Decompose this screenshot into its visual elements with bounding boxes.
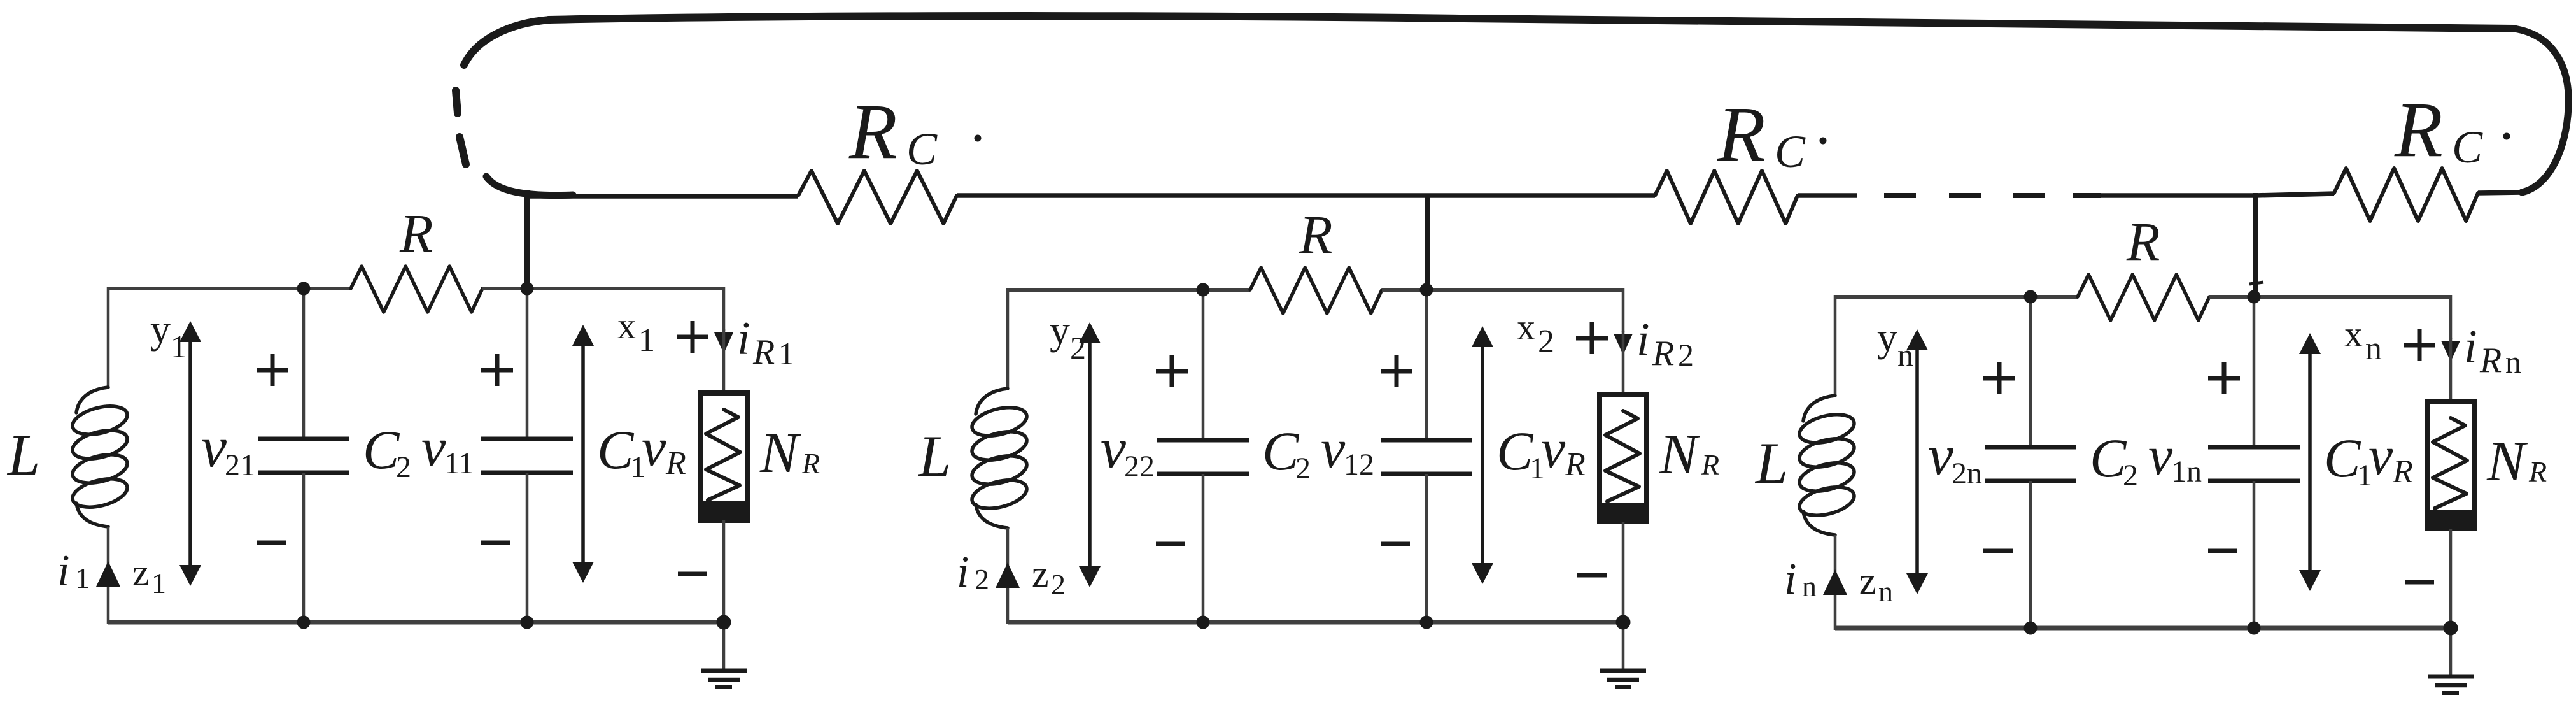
node bottom-C2 (cell 2) xyxy=(1197,616,1210,629)
node bottom-C1 (cell 2) xyxy=(1420,616,1433,629)
svg-text:i: i xyxy=(57,546,69,596)
wire cell3 N_R branch lower xyxy=(2449,529,2453,628)
svg-text:v: v xyxy=(642,417,666,478)
current arrow in (cell 3) xyxy=(1823,569,1847,595)
svg-text:1: 1 xyxy=(778,336,794,371)
loop wire left corner xyxy=(464,20,550,65)
resistor R (cell 1) xyxy=(351,266,482,312)
svg-text:R: R xyxy=(2126,211,2160,272)
label L (cell 1) xyxy=(6,422,40,487)
svg-text:1: 1 xyxy=(151,567,166,599)
capacitor C1 (cell 1) xyxy=(481,439,573,473)
wire cell1 top-left segment xyxy=(108,287,351,290)
wire junction3 to RC3 xyxy=(2256,194,2334,196)
wire cell1 C2 branch upper xyxy=(302,289,306,439)
wire cell2 C2 branch upper xyxy=(1202,290,1205,440)
nonlinear resistor N_R (cell 3) xyxy=(2427,401,2474,529)
label i_Rn xyxy=(2464,321,2521,380)
capacitor C2 (cell 3) xyxy=(1985,447,2076,481)
capacitor C2 (cell 2) xyxy=(1157,440,1249,474)
plus v2 (cell 3) xyxy=(1983,362,2015,394)
junction wire drop to cell3 xyxy=(2249,193,2263,297)
state arrow x2 (cell 2) xyxy=(1472,326,1493,584)
svg-text:i: i xyxy=(737,313,750,365)
plus v2 (cell 1) xyxy=(257,354,288,386)
label i_R1 xyxy=(737,313,794,372)
svg-text:1: 1 xyxy=(638,322,655,359)
wire cell3 left vertical (top) xyxy=(1834,295,1837,396)
wire cell2 left vertical (top) xyxy=(1006,288,1010,389)
ground (cell 1) xyxy=(701,671,747,687)
wire ground stem (cell 3) xyxy=(2449,628,2453,676)
svg-text:x: x xyxy=(1517,306,1535,348)
svg-text:v: v xyxy=(421,417,446,478)
inductor L (cell 1) xyxy=(69,387,130,527)
coupling resistor RC2 xyxy=(1655,171,1798,224)
node top-C1 (cell 2) xyxy=(1420,283,1433,297)
label C2 (cell 2) xyxy=(1262,420,1311,485)
loop wire left lower arc xyxy=(486,176,573,196)
wire cell1 top-right segment xyxy=(527,287,724,331)
node bottom-NR (cell 3) xyxy=(2444,621,2458,636)
junction wire drop to cell2 xyxy=(1425,194,1430,290)
wire ground stem (cell 2) xyxy=(1622,622,1625,671)
svg-text:11: 11 xyxy=(444,446,474,480)
svg-text:2: 2 xyxy=(975,563,989,596)
label xn xyxy=(2344,313,2382,367)
svg-text:1: 1 xyxy=(171,329,187,364)
svg-text:C: C xyxy=(363,419,400,480)
loop wire top horizontal xyxy=(549,16,2514,29)
state arrow y2/z2 (cell 2) xyxy=(1079,322,1101,587)
wire cell3 bottom xyxy=(1835,626,2451,631)
svg-text:n: n xyxy=(2365,331,2382,367)
label R (cell 3) xyxy=(2126,211,2160,272)
svg-text:2: 2 xyxy=(1678,337,1694,373)
svg-text:x: x xyxy=(617,305,636,346)
wire cell3 C2 branch upper xyxy=(2029,297,2032,447)
label v22 xyxy=(1101,417,1155,483)
label RC1 xyxy=(848,88,982,175)
coupling resistor RC1 xyxy=(798,171,957,224)
svg-text:R: R xyxy=(1701,448,1719,481)
node top-C2 (cell 3) xyxy=(2024,290,2038,304)
label L (cell 2) xyxy=(917,424,951,489)
svg-text:L: L xyxy=(6,422,40,487)
svg-text:1n: 1n xyxy=(2171,455,2202,489)
label z1 xyxy=(132,552,166,599)
inductor L (cell 3) xyxy=(1796,396,1857,535)
label RC3 xyxy=(2394,86,2510,173)
node top-C2 (cell 1) xyxy=(297,282,311,296)
wire cell2 top-right segment xyxy=(1426,288,1623,332)
svg-text:22: 22 xyxy=(1124,450,1155,483)
wire cell2 C1 branch upper xyxy=(1425,290,1428,440)
wire ground stem (cell 1) xyxy=(722,622,726,671)
svg-text:2n: 2n xyxy=(1952,457,1982,490)
label i1 xyxy=(57,546,90,596)
wire cell1 C1 branch upper xyxy=(526,289,529,439)
wire cell1 C1 branch lower xyxy=(526,473,529,622)
wire cell2 N_R branch lower xyxy=(1622,522,1625,622)
wire cell2 top-mid segment xyxy=(1382,288,1426,292)
svg-text:n: n xyxy=(1897,337,1913,373)
label i_R2 xyxy=(1636,314,1694,373)
svg-text:R: R xyxy=(1652,334,1674,373)
state arrow xn (cell 3) xyxy=(2299,333,2321,591)
label z2 xyxy=(1032,553,1066,601)
node bottom-NR (cell 2) xyxy=(1616,615,1631,630)
label y2 xyxy=(1050,308,1086,366)
plus vR (cell 3) xyxy=(2404,329,2435,361)
wire cell2 top-left segment xyxy=(1008,288,1250,292)
svg-text:L: L xyxy=(1754,431,1788,496)
wire RC3 to right loop end xyxy=(2478,192,2523,193)
svg-text:N: N xyxy=(759,422,801,485)
svg-text:R: R xyxy=(1565,446,1586,483)
svg-text:R: R xyxy=(801,447,820,480)
label v21 xyxy=(201,416,255,482)
svg-text:C: C xyxy=(2324,427,2361,489)
svg-text:R: R xyxy=(848,88,897,175)
coupling resistor RC3 xyxy=(2334,168,2478,221)
current arrow i_Rn into N_R xyxy=(2441,341,2460,362)
wire RC2 tail xyxy=(1798,193,1857,198)
capacitor C1 (cell 3) xyxy=(2208,447,2300,481)
label vR (cell 1) xyxy=(642,417,686,482)
wire cell3 left vertical (bottom) xyxy=(1834,535,1837,630)
minus v2 (cell 3) xyxy=(1983,549,2013,553)
svg-text:2: 2 xyxy=(396,450,411,484)
wire cell2 N_R branch upper xyxy=(1622,331,1625,396)
svg-text:y: y xyxy=(1050,308,1070,353)
label v12 xyxy=(1321,418,1374,482)
state arrow yn/zn (cell 3) xyxy=(1906,329,1928,594)
svg-text:12: 12 xyxy=(1344,448,1374,482)
svg-text:z: z xyxy=(132,552,150,594)
junction wire drop to cell1 xyxy=(524,190,530,290)
label C2 (cell 3) xyxy=(2090,427,2138,492)
wire cell2 left vertical (bottom) xyxy=(1006,528,1010,624)
svg-text:R: R xyxy=(2394,86,2443,173)
resistor R (cell 3) xyxy=(2078,275,2209,320)
wire cell3 top-mid segment xyxy=(2209,295,2254,299)
minus v1 (cell 3) xyxy=(2208,549,2237,553)
label y1 xyxy=(150,306,187,364)
wire RC1 to junction2 xyxy=(957,193,1428,198)
svg-text:i: i xyxy=(1636,314,1650,366)
ground (cell 3) xyxy=(2428,676,2474,693)
wire cell3 top-left segment xyxy=(1835,295,2078,299)
label v2n xyxy=(1928,424,1982,490)
plus v2 (cell 2) xyxy=(1156,355,1188,387)
svg-text:C: C xyxy=(1262,420,1300,482)
minus v2 (cell 1) xyxy=(257,541,286,545)
minus v1 (cell 2) xyxy=(1381,542,1410,546)
svg-text:R: R xyxy=(2392,453,2413,490)
state arrow y1/z1 (cell 1) xyxy=(179,321,201,586)
plus vR (cell 1) xyxy=(677,321,708,353)
svg-text:21: 21 xyxy=(225,448,255,482)
label v11 xyxy=(421,417,474,480)
wire coupling junction1 to RC1 xyxy=(530,194,798,199)
svg-text:v: v xyxy=(2148,425,2173,486)
svg-text:C: C xyxy=(906,124,938,175)
nonlinear resistor N_R (cell 2) xyxy=(1600,394,1647,522)
label i2 xyxy=(957,548,989,597)
minus vR (cell 2) xyxy=(1577,573,1607,578)
minus v1 (cell 1) xyxy=(481,541,510,545)
svg-text:v: v xyxy=(1928,424,1953,487)
svg-text:x: x xyxy=(2344,313,2363,355)
node top-C1 (cell 3) xyxy=(2248,290,2261,304)
label x2 xyxy=(1517,306,1554,360)
label L (cell 3) xyxy=(1754,431,1788,496)
label v1n xyxy=(2148,425,2202,489)
resistor R (cell 2) xyxy=(1250,268,1382,313)
label vR (cell 3) xyxy=(2368,425,2413,490)
ground (cell 2) xyxy=(1600,671,1646,687)
label C1 (cell 3) xyxy=(2324,427,2372,492)
svg-text:v: v xyxy=(201,416,227,479)
svg-text:R: R xyxy=(2528,455,2547,488)
wire cell1 C2 branch lower xyxy=(302,473,306,622)
wire cell2 C2 branch lower xyxy=(1202,474,1205,622)
wire cell3 C2 branch lower xyxy=(2029,481,2032,628)
svg-text:R: R xyxy=(665,445,686,482)
svg-text:C: C xyxy=(597,419,635,480)
label C1 (cell 2) xyxy=(1496,420,1545,485)
label vR (cell 2) xyxy=(1541,418,1586,483)
svg-text:2: 2 xyxy=(1051,568,1066,601)
current arrow i_R1 into N_R xyxy=(714,332,733,353)
label R (cell 2) xyxy=(1299,204,1333,265)
wire cell1 N_R branch upper xyxy=(722,329,726,394)
loop wire right U-turn xyxy=(2514,29,2568,192)
minus v2 (cell 2) xyxy=(1156,542,1185,546)
svg-text:v: v xyxy=(1321,418,1346,479)
inductor L (cell 2) xyxy=(969,389,1029,528)
svg-text:y: y xyxy=(1877,315,1897,360)
svg-text:i: i xyxy=(2464,321,2477,373)
svg-text:N: N xyxy=(2486,430,2528,493)
svg-text:2: 2 xyxy=(2123,459,2138,492)
svg-text:y: y xyxy=(150,306,171,352)
minus vR (cell 3) xyxy=(2405,580,2434,585)
svg-text:z: z xyxy=(1859,560,1876,602)
label yn xyxy=(1877,315,1913,373)
svg-text:N: N xyxy=(1659,423,1701,486)
label RC2 xyxy=(1717,90,1827,178)
wire cell3 top-right segment xyxy=(2254,295,2451,339)
wire cell1 left vertical (top) xyxy=(107,287,110,387)
state arrow x1 (cell 1) xyxy=(572,325,594,583)
wire cell3 N_R branch upper xyxy=(2449,338,2453,403)
current arrow i2 (cell 2) xyxy=(996,562,1020,588)
node top-C1 (cell 1) xyxy=(521,282,534,296)
svg-text:2: 2 xyxy=(1070,330,1086,366)
plus v1 (cell 3) xyxy=(2208,362,2240,394)
svg-text:n: n xyxy=(1878,575,1893,608)
svg-text:v: v xyxy=(2368,425,2393,486)
svg-text:C: C xyxy=(2452,122,2483,173)
node top-C2 (cell 2) xyxy=(1197,283,1210,297)
loop wire left dashed segment xyxy=(456,90,466,164)
plus vR (cell 2) xyxy=(1576,322,1608,354)
label in xyxy=(1784,555,1817,604)
svg-text:C: C xyxy=(2090,427,2127,489)
wire cell1 bottom xyxy=(108,620,724,625)
svg-text:1: 1 xyxy=(75,562,90,594)
svg-text:2: 2 xyxy=(1295,452,1311,485)
svg-text:R: R xyxy=(2479,341,2502,380)
label R (cell 1) xyxy=(399,203,433,264)
svg-text:R: R xyxy=(1299,204,1333,265)
label C2 (cell 1) xyxy=(363,419,411,484)
nonlinear resistor N_R (cell 1) xyxy=(700,393,747,520)
label N_R (cell 1) xyxy=(759,422,820,485)
svg-text:v: v xyxy=(1541,418,1566,479)
label zn xyxy=(1859,560,1893,608)
label N_R (cell 3) xyxy=(2486,430,2547,493)
svg-text:n: n xyxy=(2505,344,2521,380)
svg-text:C: C xyxy=(1496,420,1534,482)
wire dashes to junction3 xyxy=(2098,193,2256,198)
svg-text:i: i xyxy=(1784,555,1796,604)
wire junction2 to RC2 xyxy=(1428,193,1655,198)
svg-text:i: i xyxy=(957,548,969,597)
plus v1 (cell 2) xyxy=(1381,355,1412,387)
wire cell1 N_R branch lower xyxy=(722,520,726,622)
dashed bus continuation xyxy=(1884,193,2101,198)
node bottom-NR (cell 1) xyxy=(717,615,731,630)
wire cell3 C1 branch upper xyxy=(2253,297,2256,447)
svg-text:2: 2 xyxy=(1538,324,1554,360)
current arrow i1 (cell 1) xyxy=(96,561,120,587)
svg-text:R: R xyxy=(752,332,775,372)
capacitor C1 (cell 2) xyxy=(1381,440,1472,474)
svg-text:z: z xyxy=(1032,553,1049,595)
wire cell3 C1 branch lower xyxy=(2253,481,2256,628)
label C1 (cell 1) xyxy=(597,419,645,484)
svg-text:v: v xyxy=(1101,417,1126,480)
node bottom-C2 (cell 1) xyxy=(297,616,311,629)
node bottom-C2 (cell 3) xyxy=(2024,622,2038,635)
current arrow i_R2 into N_R xyxy=(1614,334,1633,355)
label x1 xyxy=(617,305,655,359)
node bottom-C1 (cell 1) xyxy=(521,616,534,629)
minus vR (cell 1) xyxy=(678,572,707,576)
capacitor C2 (cell 1) xyxy=(258,439,349,473)
wire cell2 bottom xyxy=(1008,620,1623,625)
plus v1 (cell 1) xyxy=(481,354,513,386)
svg-text:C: C xyxy=(1775,126,1806,177)
wire cell2 C1 branch lower xyxy=(1425,474,1428,622)
svg-text:n: n xyxy=(1802,570,1817,603)
wire cell1 left vertical (bottom) xyxy=(107,527,110,624)
svg-text:R: R xyxy=(1717,90,1766,178)
label N_R (cell 2) xyxy=(1659,423,1719,486)
svg-text:R: R xyxy=(399,203,433,264)
wire cell1 top-mid segment xyxy=(482,287,527,290)
node bottom-C1 (cell 3) xyxy=(2248,622,2261,635)
svg-text:L: L xyxy=(917,424,951,489)
